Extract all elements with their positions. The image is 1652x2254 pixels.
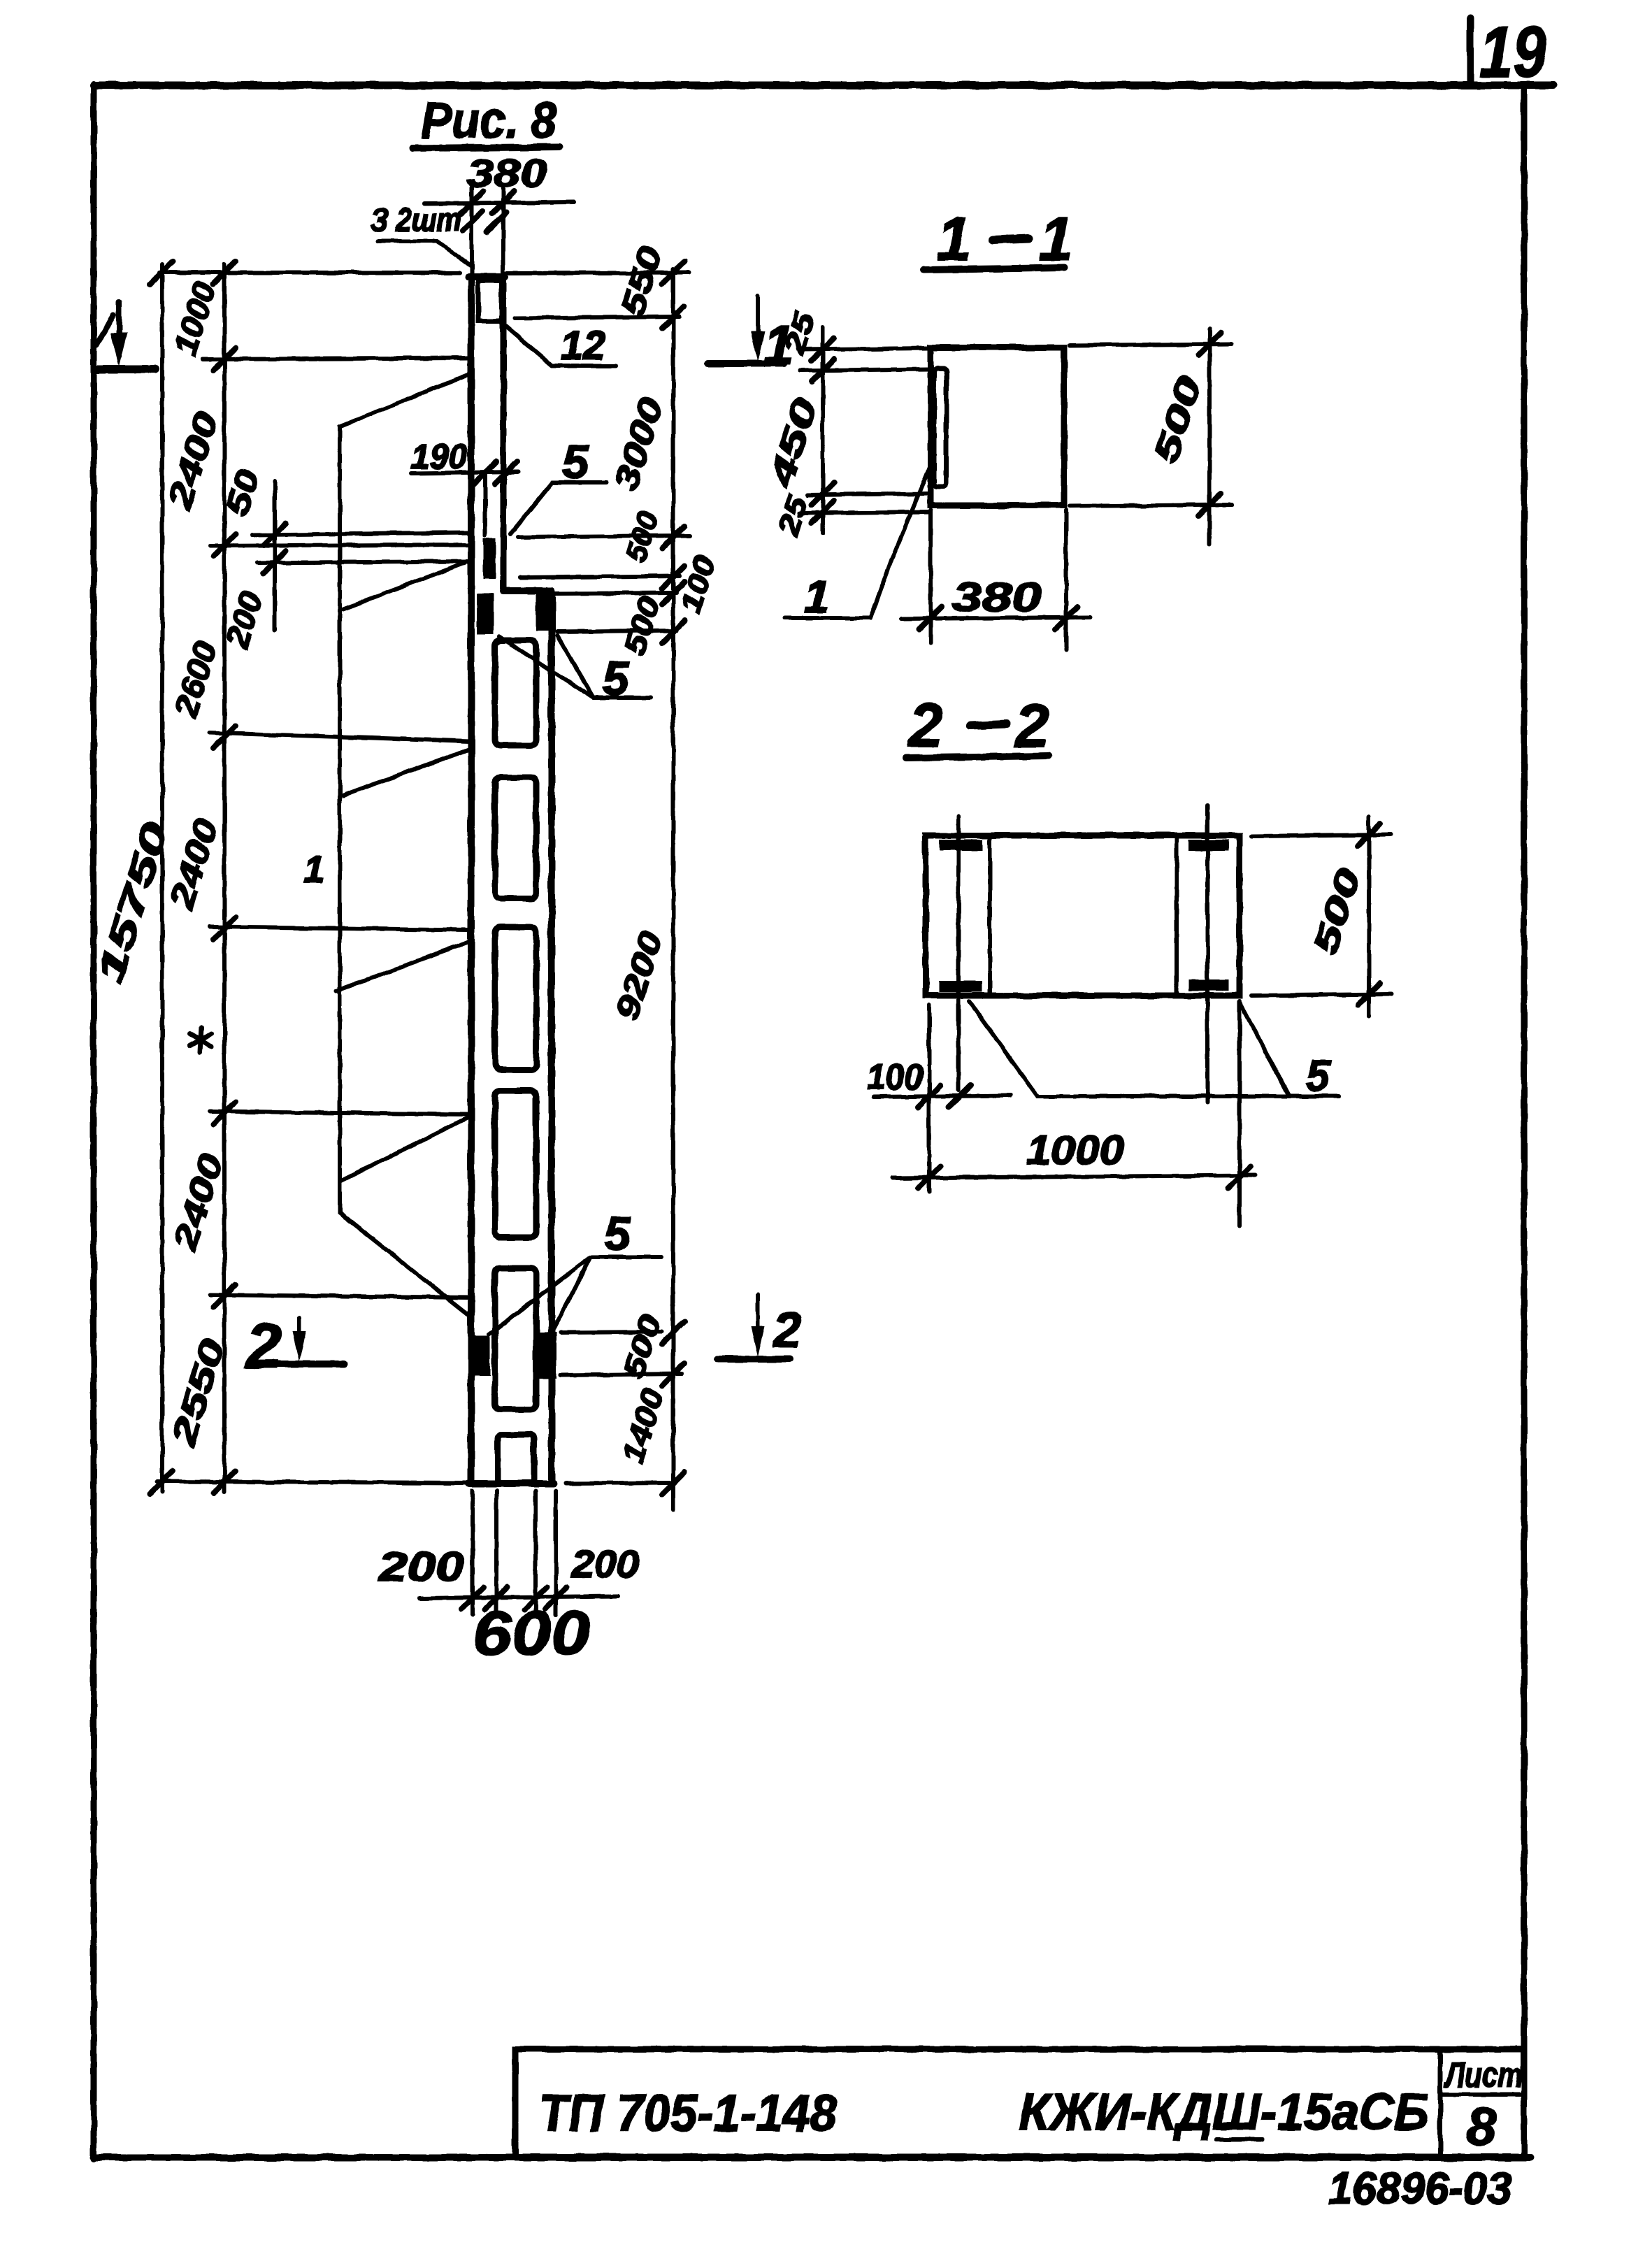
label 1 branch b2 bbox=[343, 563, 465, 609]
bottom dim line bbox=[419, 1596, 618, 1598]
embedded plate P1 upper shaft bbox=[483, 538, 496, 579]
svg-text:200: 200 bbox=[571, 1542, 639, 1586]
level line 3000 bottom bbox=[518, 536, 689, 537]
level line 500b bottom bbox=[557, 631, 677, 632]
section 1-1 body bbox=[931, 347, 1064, 505]
level line top right bbox=[505, 273, 689, 273]
svg-text:1: 1 bbox=[1039, 204, 1073, 273]
cut 1 left datum arrow bbox=[95, 302, 155, 369]
section 2-2 ext line right bbox=[1237, 1001, 1242, 1226]
title block divider horizontal bbox=[1440, 2093, 1524, 2097]
bottom ticks bbox=[461, 1587, 567, 1609]
section 2-2 inner line left bbox=[988, 835, 992, 996]
svg-text:1: 1 bbox=[937, 204, 971, 273]
column bottom edge bbox=[468, 1480, 554, 1487]
ext line right bbox=[501, 187, 505, 273]
column lower right edge bbox=[548, 591, 555, 1484]
embedded plate P5 lower joint right bbox=[533, 1333, 556, 1379]
column top edge bbox=[468, 273, 505, 280]
ext line bottom a bbox=[471, 1491, 475, 1615]
page number tick bbox=[1467, 17, 1474, 84]
opening 5 bbox=[495, 1268, 536, 1409]
svg-text:600: 600 bbox=[473, 1598, 590, 1667]
section 1-1 top 25 line b bbox=[800, 369, 931, 371]
section 1-1 left chain ticks bbox=[812, 338, 834, 523]
embedded plate P2 right below step bbox=[536, 594, 556, 631]
ext line left bbox=[470, 187, 474, 273]
section 1-1 dim 500 line bbox=[1207, 329, 1212, 544]
svg-text:5: 5 bbox=[604, 1207, 631, 1261]
ticks 190 bbox=[474, 461, 517, 484]
level line star bottom bbox=[210, 1112, 470, 1114]
level line 500c bottom bbox=[561, 1374, 682, 1375]
embedded plate P4 lower joint left bbox=[473, 1335, 490, 1376]
note leader bbox=[378, 241, 471, 266]
section 1-1 bottom line 25 bbox=[800, 512, 931, 513]
level line 9200 bottom bbox=[561, 1332, 661, 1333]
svg-text:2: 2 bbox=[772, 1302, 801, 1358]
label 5c leaders bbox=[489, 1257, 661, 1334]
section 2-2 dim 100 line bbox=[874, 1096, 1011, 1097]
section 2-2 plate tl bbox=[939, 840, 982, 851]
ext line bottom c bbox=[533, 1491, 538, 1615]
level line bottom bbox=[157, 1481, 470, 1483]
section 2-2 dim 100 ticks bbox=[918, 1085, 971, 1107]
svg-text:1: 1 bbox=[303, 849, 324, 891]
section 1-1 title underline bbox=[924, 268, 1064, 270]
cut 2 left arrow bbox=[271, 1318, 344, 1364]
section 2-2 plate tr bbox=[1188, 840, 1228, 851]
level line 2600 bottom bbox=[210, 733, 470, 741]
ext line bottom d bbox=[554, 1491, 558, 1615]
outer chain line 15750 bbox=[160, 264, 164, 1492]
svg-text:190: 190 bbox=[411, 437, 467, 476]
section 2-2 title underline bbox=[905, 756, 1049, 758]
opening 3 bbox=[495, 927, 536, 1070]
column left edge bbox=[468, 276, 475, 1484]
svg-text:1000: 1000 bbox=[1026, 1128, 1124, 1173]
tick marks right chain bbox=[662, 261, 684, 1495]
title block divider vertical bbox=[1438, 2049, 1443, 2157]
svg-text:2: 2 bbox=[1014, 691, 1049, 760]
section 2-2 plate bl bbox=[939, 981, 982, 992]
section 1-1 recess plate bbox=[934, 368, 947, 487]
section 2-2 dim 500 line bbox=[1367, 817, 1371, 1017]
section 2-2 centerline left bbox=[956, 817, 961, 1091]
level line 100 bottom bbox=[556, 593, 677, 594]
section 2-2 label 5 leaders bbox=[969, 1001, 1339, 1096]
column step at joint bbox=[503, 587, 552, 594]
section 2-2 dim 500 ticks bbox=[1358, 824, 1380, 1005]
ext line bottom b bbox=[494, 1491, 498, 1615]
svg-text:19: 19 bbox=[1479, 12, 1546, 93]
level line 550 bottom bbox=[515, 317, 680, 318]
note cross ticks bbox=[463, 211, 506, 232]
opening 4 bbox=[495, 1091, 536, 1237]
svg-text:Лист: Лист bbox=[1444, 2055, 1523, 2095]
section 1-1 top 25 line a bbox=[800, 348, 931, 350]
ticks 380 bbox=[461, 192, 515, 214]
svg-text:380: 380 bbox=[952, 575, 1042, 620]
svg-text:КЖИ-КДШ-15аСБ: КЖИ-КДШ-15аСБ bbox=[1019, 2083, 1429, 2141]
cut 2 right arrow bbox=[717, 1295, 789, 1359]
level line 1000 bbox=[203, 358, 470, 359]
label 1 spine bbox=[340, 374, 470, 1316]
level line 2400 mid bbox=[210, 927, 470, 930]
label 1 branch b3 bbox=[343, 749, 470, 796]
svg-text:2: 2 bbox=[245, 1310, 282, 1381]
svg-text:100: 100 bbox=[867, 1057, 923, 1098]
right chain line bbox=[671, 269, 675, 1510]
label 1 branch b5 bbox=[341, 1117, 470, 1181]
section 2-2 dim 1000 ticks bbox=[918, 1166, 1251, 1189]
embedded plate P3 left below step bbox=[477, 594, 494, 635]
section 1-1 label 1 leader bbox=[784, 454, 935, 618]
section 1-1 bottom line 450 bbox=[807, 494, 931, 495]
svg-text:1: 1 bbox=[804, 570, 830, 622]
level line 500a bottom bbox=[520, 576, 680, 577]
svg-text:Рис. 8: Рис. 8 bbox=[421, 93, 556, 149]
section 2-2 dim 1000 line bbox=[893, 1175, 1255, 1178]
svg-text:200: 200 bbox=[378, 1544, 464, 1590]
section 2-2 body bbox=[926, 835, 1240, 996]
label 5a leader bbox=[510, 482, 607, 534]
section 2-2 plate br bbox=[1188, 979, 1228, 991]
section 2-2 dim 500 level lines bbox=[1251, 835, 1391, 836]
level line 1400 bottom bbox=[566, 1483, 670, 1484]
svg-text:З 2шт: З 2шт bbox=[371, 201, 461, 238]
section 2-2 inner line right bbox=[1175, 835, 1179, 996]
opening 2 bbox=[495, 777, 536, 898]
section 1-1 dim 380 line bbox=[901, 617, 1091, 619]
svg-text:8: 8 bbox=[1467, 2097, 1497, 2157]
cut 1 right arrow bbox=[708, 296, 784, 364]
svg-text:16896-03: 16896-03 bbox=[1328, 2163, 1511, 2213]
inner chain line bbox=[222, 264, 227, 1492]
ext line 190 bbox=[483, 473, 487, 536]
section 2-2 centerline right bbox=[1205, 805, 1209, 1103]
label 12 leader bbox=[502, 323, 616, 366]
svg-text:2: 2 bbox=[907, 691, 943, 760]
mini dim line 50-200 bbox=[273, 481, 277, 631]
section 1-1 dim 500 ticks bbox=[1198, 333, 1221, 516]
level line 2400 low bbox=[210, 1295, 470, 1298]
level line top bbox=[159, 271, 460, 275]
svg-text:ТП 705-1-148: ТП 705-1-148 bbox=[539, 2084, 838, 2142]
dim text star bbox=[190, 1027, 211, 1052]
section 1-1 dim 380 ext lines bbox=[928, 510, 933, 643]
column upper shaft right edge bbox=[501, 277, 507, 591]
label 5b leaders bbox=[499, 637, 650, 698]
level line 50 upper bbox=[252, 533, 470, 535]
section 2-2 ext line left bbox=[927, 1005, 931, 1192]
dim line 380 bbox=[424, 202, 574, 203]
svg-text:5: 5 bbox=[1306, 1052, 1331, 1100]
top recess (pocket 12) bbox=[478, 281, 501, 321]
section 1-1 dim 380 ticks bbox=[919, 607, 1077, 629]
tick marks left chains bbox=[150, 261, 286, 1493]
bottom fork slot bbox=[498, 1435, 534, 1484]
dim line 190 bbox=[412, 472, 519, 473]
level line main joint bbox=[210, 545, 470, 546]
title block outline bbox=[515, 2049, 1524, 2157]
section 1-1 dim 500 level lines bbox=[1070, 344, 1232, 345]
opening 1 bbox=[495, 640, 536, 745]
svg-text:12: 12 bbox=[561, 323, 605, 368]
section 1-1 left chain bbox=[821, 327, 825, 533]
svg-text:380: 380 bbox=[467, 151, 547, 195]
label 1 branch b4 bbox=[336, 942, 470, 991]
level line 200 lower bbox=[257, 561, 470, 563]
